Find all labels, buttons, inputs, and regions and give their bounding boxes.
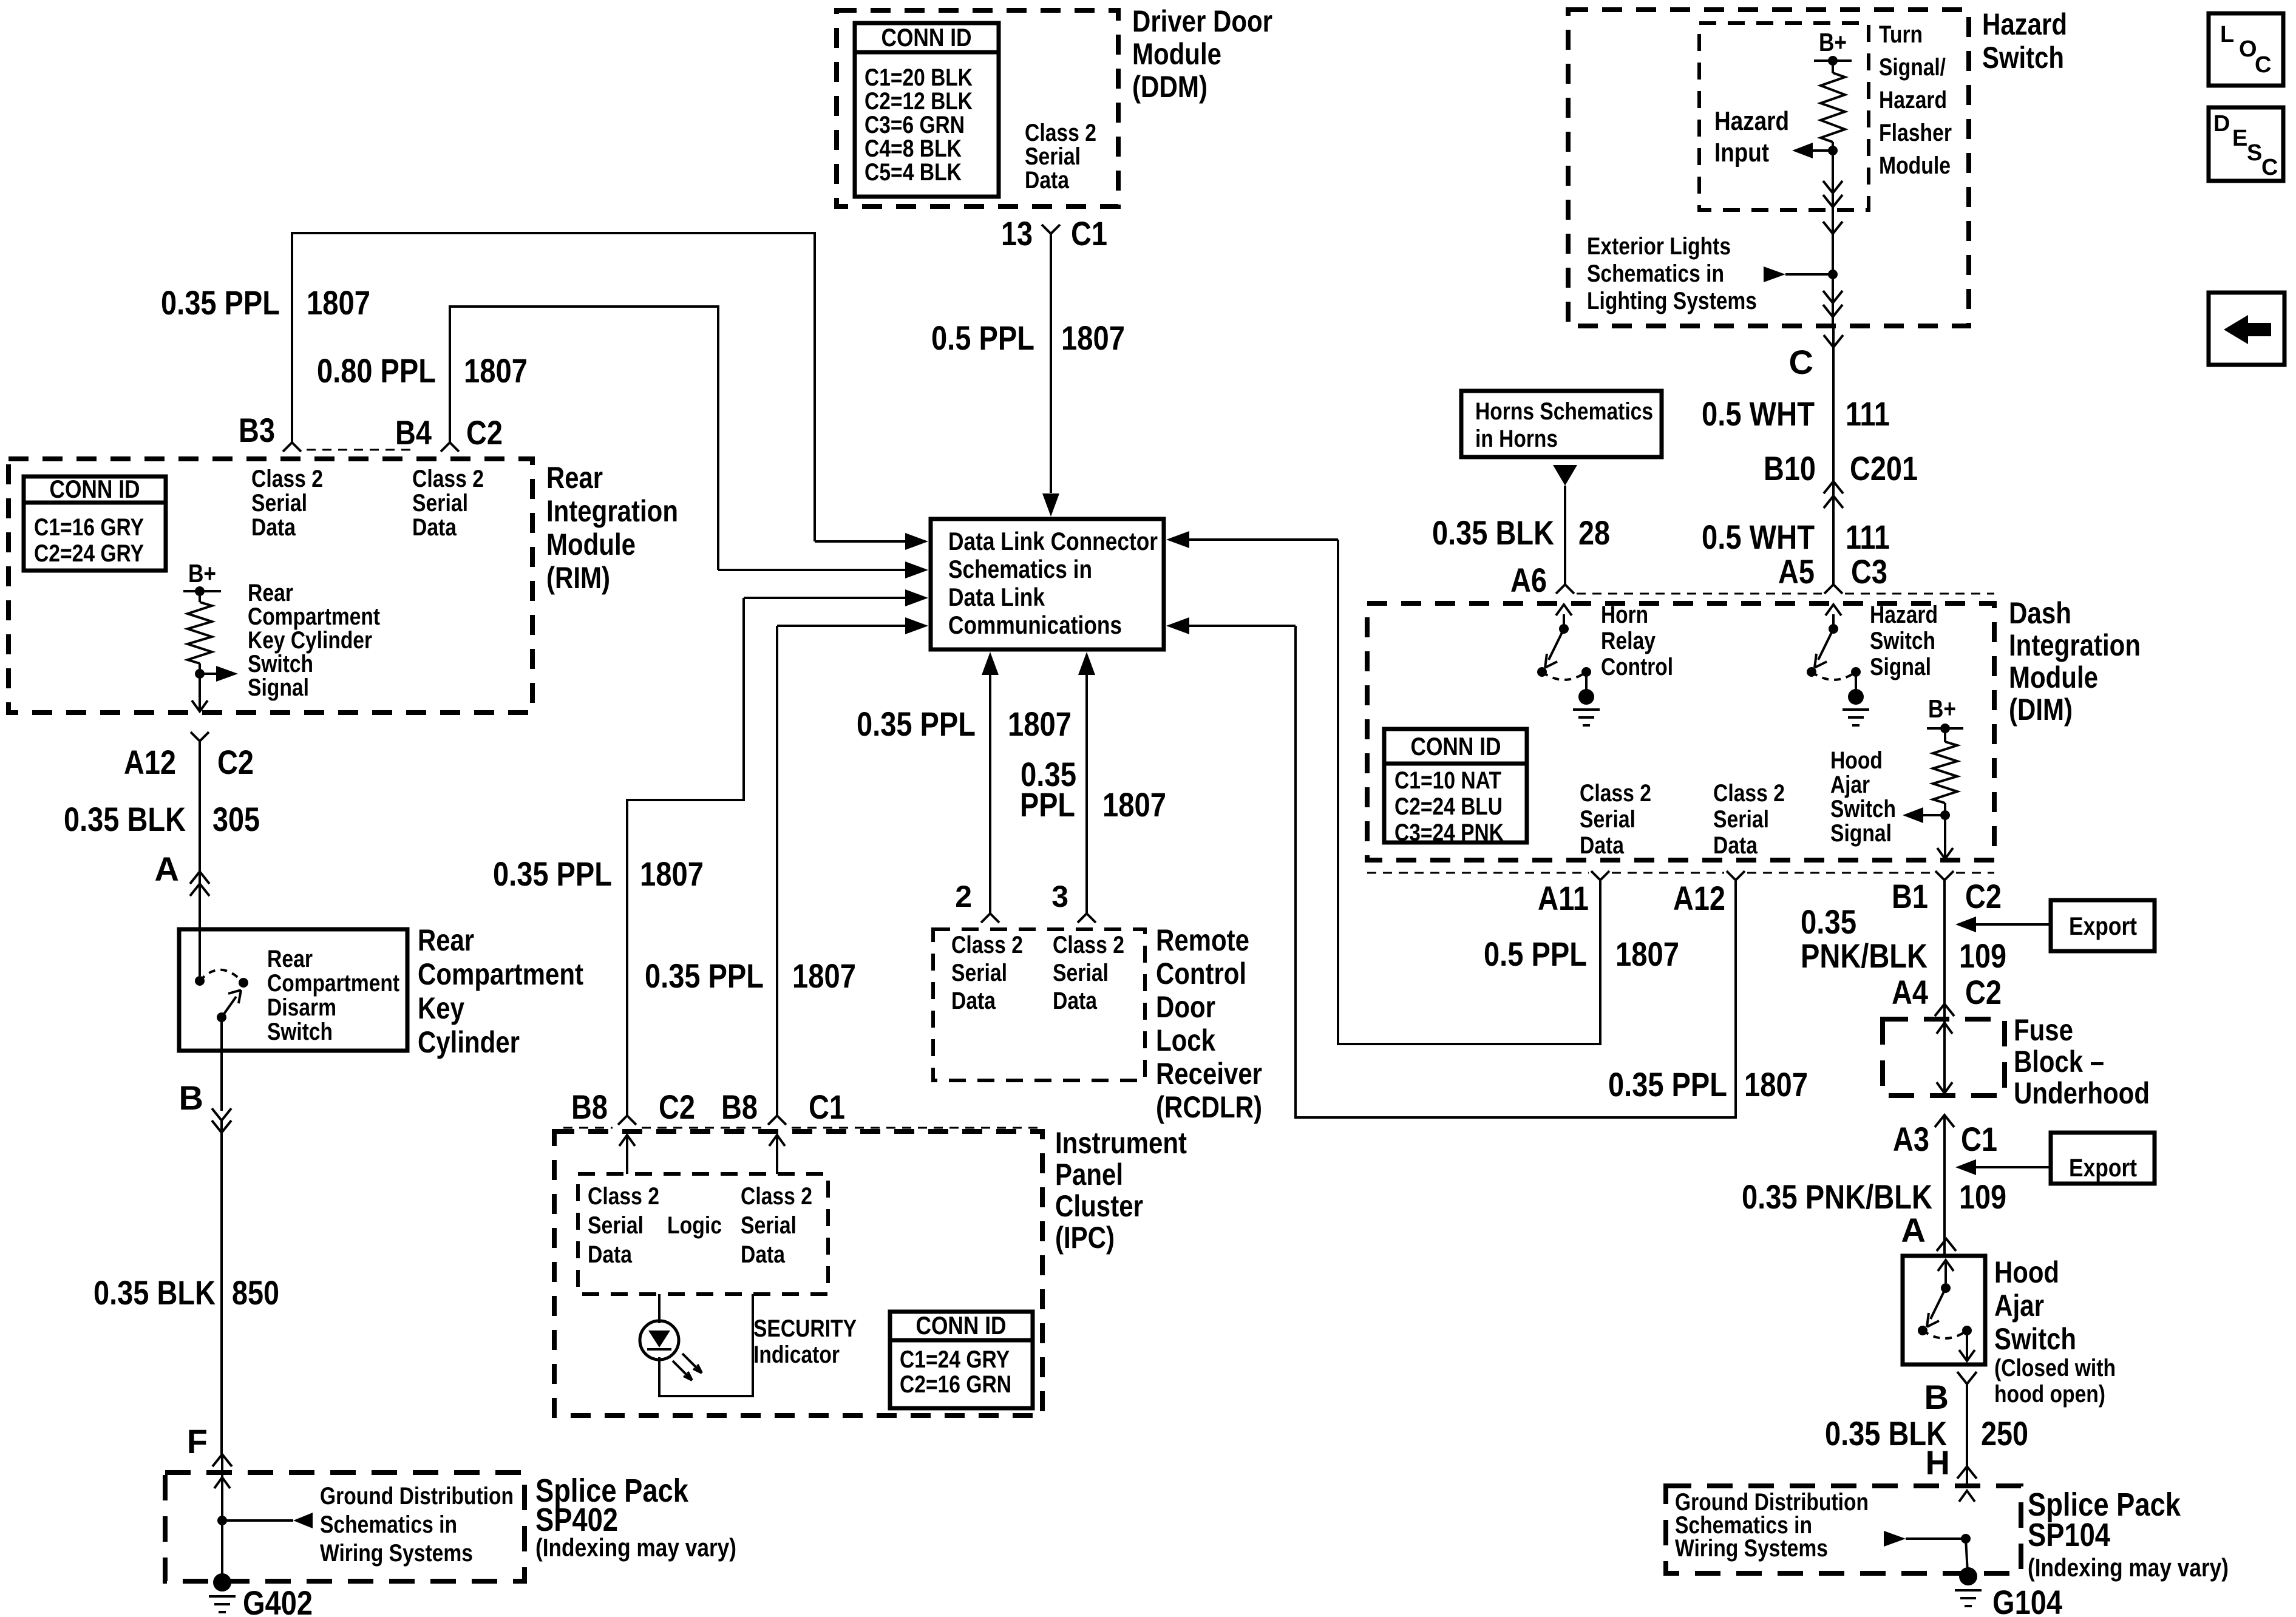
svg-text:C3=6 GRN: C3=6 GRN — [864, 112, 965, 138]
svg-text:(IPC): (IPC) — [1055, 1221, 1115, 1255]
inline connector marks flasher module exit — [1823, 181, 1843, 193]
svg-text:C1=10 NAT: C1=10 NAT — [1394, 767, 1501, 794]
svg-text:A4: A4 — [1892, 973, 1928, 1011]
svg-text:Switch: Switch — [1870, 628, 1935, 654]
svg-text:(DIM): (DIM) — [2009, 693, 2073, 727]
svg-text:111: 111 — [1846, 518, 1890, 556]
arrowhead DLC left 1 — [905, 533, 928, 550]
svg-text:Module: Module — [1879, 152, 1951, 179]
arrowhead DLC left 2 — [905, 561, 928, 578]
svg-text:Module: Module — [2009, 660, 2098, 694]
svg-text:1807: 1807 — [792, 957, 856, 995]
svg-text:Serial: Serial — [412, 490, 468, 517]
svg-text:B8: B8 — [571, 1088, 608, 1126]
pin A5 C3 of DIM — [1824, 585, 1843, 594]
svg-text:Serial: Serial — [251, 490, 307, 517]
arrowhead left hazard input — [1813, 149, 1833, 152]
svg-text:1807: 1807 — [1008, 705, 1072, 743]
svg-text:0.5 PPL: 0.5 PPL — [931, 319, 1034, 357]
svg-text:Dash: Dash — [2009, 596, 2071, 630]
svg-text:Logic: Logic — [667, 1212, 722, 1239]
svg-text:A6: A6 — [1510, 561, 1547, 599]
switch lower contact dot — [217, 1012, 226, 1022]
ground G104 — [1966, 1539, 1968, 1572]
wire 850 to splice pack (0.35 BLK) — [220, 1120, 223, 1454]
svg-text:C201: C201 — [1850, 449, 1918, 487]
svg-text:Class 2: Class 2 — [1713, 780, 1785, 807]
svg-text:B: B — [1924, 1378, 1949, 1416]
module box Splice Pack SP104, dashed — [1666, 1486, 2021, 1573]
svg-text:0.35 BLK: 0.35 BLK — [64, 800, 186, 838]
switch arc dashed (horn relay) — [1542, 672, 1586, 680]
svg-text:Class 2: Class 2 — [1580, 780, 1651, 807]
svg-text:(Indexing may vary): (Indexing may vary) — [535, 1533, 736, 1562]
svg-text:A3: A3 — [1893, 1120, 1929, 1158]
arrowhead DLC bottom left (from RCDLR 2) — [982, 652, 999, 675]
pin B1 C2 of DIM — [1935, 871, 1954, 880]
svg-text:C2=24 BLU: C2=24 BLU — [1394, 793, 1503, 820]
svg-text:D: D — [2213, 111, 2230, 137]
svg-text:Data: Data — [1580, 832, 1625, 859]
svg-text:Data: Data — [251, 514, 296, 541]
svg-text:B8: B8 — [721, 1088, 758, 1126]
pin A6 of DIM — [1556, 585, 1574, 594]
arrowhead left hood ajar signal — [1923, 814, 1945, 816]
svg-text:Module: Module — [1132, 37, 1221, 71]
svg-text:Integration: Integration — [546, 494, 678, 528]
pin B8 C2 of IPC — [618, 1116, 636, 1125]
arrowhead up IPC B8/C1 internal — [776, 1136, 778, 1174]
ground hazard switch signal — [1855, 672, 1857, 692]
svg-text:Class 2: Class 2 — [1053, 932, 1124, 958]
ground G402 — [221, 1520, 223, 1578]
switch contact dots key cylinder — [199, 929, 201, 976]
svg-text:Data Link Connector: Data Link Connector — [948, 527, 1158, 555]
wire from logic to security LED — [658, 1294, 661, 1323]
svg-text:0.35 BLK: 0.35 BLK — [93, 1273, 216, 1312]
svg-text:B4: B4 — [395, 413, 432, 452]
resistor hood ajar switch signal — [1944, 728, 1946, 742]
svg-text:Data: Data — [412, 514, 457, 541]
svg-text:C2: C2 — [659, 1088, 695, 1126]
pin B4 C2 of RIM — [441, 442, 459, 452]
svg-text:28: 28 — [1578, 514, 1610, 552]
svg-text:C: C — [1789, 343, 1813, 381]
junction dot RIM switch signal — [195, 669, 205, 679]
wire 305 from RIM A12 to key cylinder (0.35 BLK) — [199, 741, 201, 929]
svg-text:0.35: 0.35 — [1801, 903, 1856, 941]
svg-text:Export: Export — [2069, 912, 2137, 940]
svg-text:0.35 PPL: 0.35 PPL — [1608, 1065, 1727, 1103]
svg-text:Key Cylinder: Key Cylinder — [248, 627, 372, 654]
svg-text:C: C — [2261, 155, 2278, 180]
svg-text:C1=20 BLK: C1=20 BLK — [864, 64, 973, 91]
svg-text:CONN ID: CONN ID — [50, 475, 140, 503]
svg-text:Switch: Switch — [1830, 796, 1896, 822]
svg-text:A11: A11 — [1538, 879, 1589, 917]
svg-text:Integration: Integration — [2009, 628, 2141, 662]
svg-text:1807: 1807 — [1061, 319, 1125, 357]
svg-text:PPL: PPL — [1020, 785, 1075, 824]
svg-text:(RIM): (RIM) — [546, 561, 610, 595]
module box RIM (Rear Integration Module), dashed — [8, 459, 532, 713]
junction dot hazard input — [1828, 146, 1838, 155]
svg-text:Serial: Serial — [1580, 806, 1635, 833]
svg-text:C1=16 GRY: C1=16 GRY — [34, 514, 144, 541]
svg-text:Module: Module — [546, 527, 636, 561]
svg-text:Turn: Turn — [1879, 21, 1923, 48]
wire 1807 from DDM pin 13 to DLC — [1050, 234, 1052, 493]
svg-text:Horn: Horn — [1601, 602, 1648, 628]
module box Fuse Block Underhood, dashed — [1883, 1019, 2005, 1096]
svg-text:Rear: Rear — [546, 461, 603, 495]
arrowhead into DLC top — [1042, 493, 1059, 517]
svg-text:Relay: Relay — [1601, 628, 1656, 654]
svg-text:250: 250 — [1981, 1414, 2028, 1453]
svg-text:Wiring Systems: Wiring Systems — [320, 1540, 473, 1567]
wire 1807 from IPC B8/C2 to DLC (0.35 PPL) — [627, 598, 744, 1116]
junction dot hood ajar signal — [1940, 810, 1950, 820]
legend box DESC — [2209, 107, 2283, 181]
svg-text:H: H — [1926, 1443, 1950, 1482]
node box Horns Schematics in Horns — [1461, 391, 1662, 457]
svg-text:Hazard: Hazard — [1714, 106, 1789, 136]
wire RIM internal down arrow — [199, 674, 201, 710]
pin B8 C1 of IPC — [768, 1116, 786, 1125]
arrowhead DLC left 4 — [905, 617, 928, 634]
svg-text:(Indexing may vary): (Indexing may vary) — [2028, 1553, 2229, 1582]
pin A12 of DIM — [1727, 871, 1745, 880]
svg-text:Data: Data — [1713, 832, 1758, 859]
svg-text:C2: C2 — [217, 743, 254, 781]
wire 28 from horns to DIM A6 (0.35 BLK) — [1564, 486, 1566, 585]
svg-text:Lock: Lock — [1156, 1023, 1215, 1057]
svg-text:1807: 1807 — [307, 283, 370, 322]
wire 1807 from DIM A12 to DLC (0.35 PPL) — [1296, 626, 1736, 1117]
svg-text:Door: Door — [1156, 990, 1215, 1024]
svg-text:Ajar: Ajar — [1830, 771, 1870, 798]
svg-text:A: A — [155, 850, 179, 888]
resistor hazard flasher — [1832, 61, 1834, 73]
svg-text:Block –: Block – — [2014, 1045, 2104, 1079]
svg-text:C1: C1 — [1961, 1120, 1997, 1158]
inline connector mark below flasher — [1823, 222, 1843, 234]
svg-text:Compartment: Compartment — [418, 957, 583, 991]
svg-text:111: 111 — [1846, 395, 1890, 433]
svg-text:3: 3 — [1051, 880, 1068, 914]
svg-text:Receiver: Receiver — [1156, 1057, 1262, 1091]
switch arc dashed (hood ajar) — [1923, 1331, 1967, 1338]
svg-text:Data: Data — [1025, 167, 1070, 194]
svg-text:F: F — [187, 1422, 208, 1460]
svg-text:Hazard: Hazard — [1982, 7, 2067, 41]
svg-text:1807: 1807 — [640, 855, 704, 893]
svg-text:B1: B1 — [1892, 877, 1928, 915]
svg-text:Wiring Systems: Wiring Systems — [1675, 1535, 1828, 1562]
svg-text:Schematics in: Schematics in — [320, 1511, 457, 1538]
svg-text:0.5 WHT: 0.5 WHT — [1702, 395, 1815, 433]
svg-text:Hood: Hood — [1830, 747, 1883, 774]
pin A11 of DIM — [1591, 871, 1609, 880]
arrowhead from Export upper — [1955, 917, 1976, 932]
svg-text:Hazard: Hazard — [1879, 87, 1947, 114]
pin 3 of RCDLR — [1078, 914, 1096, 923]
svg-text:Rear: Rear — [248, 580, 293, 606]
connector ID table DIM — [1384, 729, 1527, 842]
svg-text:Cluster: Cluster — [1055, 1189, 1143, 1223]
wire from LED to logic right — [659, 1294, 753, 1396]
junction dot exterior lights — [1828, 269, 1838, 279]
svg-text:Compartment: Compartment — [267, 970, 399, 997]
svg-text:Underhood: Underhood — [2014, 1076, 2150, 1110]
svg-text:Ground Distribution: Ground Distribution — [320, 1483, 514, 1510]
wire through fuse block with arrows — [1943, 1019, 1946, 1096]
inline connector B (key cylinder) — [212, 1108, 231, 1120]
svg-text:C2: C2 — [1965, 877, 2002, 915]
svg-text:B10: B10 — [1764, 449, 1816, 487]
svg-text:Disarm: Disarm — [267, 994, 336, 1021]
svg-text:Remote: Remote — [1156, 923, 1249, 957]
svg-text:Class 2: Class 2 — [251, 466, 323, 492]
svg-text:Data: Data — [951, 988, 996, 1014]
svg-text:0.80 PPL: 0.80 PPL — [317, 351, 436, 390]
svg-text:Switch: Switch — [1994, 1322, 2076, 1356]
svg-text:Schematics in: Schematics in — [948, 555, 1092, 583]
module box IPC (Instrument Panel Cluster), dashed — [554, 1131, 1042, 1415]
resistor rear compartment key cylinder switch (RIM) — [199, 591, 201, 602]
connector strip DIM bottom — [1367, 872, 1589, 874]
svg-text:(Closed with: (Closed with — [1994, 1355, 2116, 1381]
wire 1807 from IPC B8/C1 to DLC (0.35 PPL) — [776, 626, 778, 1116]
junction dot SP104 — [1961, 1534, 1971, 1544]
svg-text:109: 109 — [1959, 937, 2006, 975]
svg-text:A12: A12 — [124, 743, 176, 781]
svg-text:in Horns: in Horns — [1475, 425, 1558, 452]
svg-text:SECURITY: SECURITY — [753, 1315, 857, 1342]
module box Hazard Switch, dashed — [1568, 10, 1969, 326]
svg-text:1807: 1807 — [1744, 1065, 1808, 1103]
svg-text:Class 2: Class 2 — [741, 1183, 812, 1210]
svg-text:Class 2: Class 2 — [1025, 120, 1096, 146]
arrowhead right (RIM switch signal) — [200, 673, 216, 675]
svg-text:Signal: Signal — [248, 674, 309, 701]
svg-text:(RCDLR): (RCDLR) — [1156, 1090, 1262, 1124]
node box Data Link Connector reference — [931, 519, 1164, 649]
arrowhead up inside SP402 — [214, 1477, 230, 1488]
switch arc dashed (key cylinder) — [200, 970, 243, 983]
svg-text:C2: C2 — [466, 413, 503, 452]
svg-text:Serial: Serial — [1053, 960, 1109, 986]
wire hood ajar lower contact — [1966, 1331, 1968, 1360]
svg-text:0.35 PNK/BLK: 0.35 PNK/BLK — [1742, 1178, 1932, 1216]
arrowhead DLC right lower — [1166, 617, 1189, 634]
svg-text:C3: C3 — [1851, 552, 1887, 591]
svg-text:0.35 PPL: 0.35 PPL — [857, 705, 976, 743]
svg-text:B3: B3 — [239, 411, 275, 449]
svg-text:C2=16 GRN: C2=16 GRN — [900, 1371, 1011, 1398]
svg-text:Input: Input — [1714, 138, 1769, 168]
logic box IPC, dashed — [578, 1174, 828, 1294]
svg-text:Switch: Switch — [1982, 41, 2064, 75]
svg-text:Data: Data — [741, 1241, 786, 1268]
connector strip RIM top — [307, 449, 410, 451]
arrowhead from Export lower — [1955, 1159, 1976, 1175]
svg-text:C4=8 BLK: C4=8 BLK — [864, 135, 962, 162]
svg-text:Communications: Communications — [948, 611, 1122, 639]
arrowhead left to ground distribution (SP402) — [222, 1519, 293, 1522]
svg-text:C1: C1 — [1071, 214, 1107, 253]
svg-text:Exterior Lights: Exterior Lights — [1587, 233, 1731, 260]
svg-text:Serial: Serial — [588, 1212, 644, 1239]
wire 109 from fuse block to hood ajar switch — [1943, 1115, 1946, 1256]
svg-text:E: E — [2232, 126, 2247, 151]
svg-text:Schematics in: Schematics in — [1587, 260, 1724, 287]
svg-text:Flasher: Flasher — [1879, 120, 1952, 146]
svg-text:C: C — [2255, 52, 2271, 78]
connector strip IPC top — [563, 1127, 613, 1129]
inline connector C — [1824, 335, 1843, 347]
svg-text:0.35 PPL: 0.35 PPL — [493, 855, 612, 893]
module box Splice Pack SP402, dashed — [165, 1473, 525, 1581]
arrowhead DLC bottom right (from RCDLR 3) — [1078, 652, 1095, 675]
svg-text:Rear: Rear — [418, 923, 474, 957]
svg-text:Hood: Hood — [1994, 1255, 2059, 1289]
arrowhead up IPC B8/C2 internal — [626, 1136, 628, 1174]
svg-text:Cylinder: Cylinder — [418, 1025, 520, 1059]
switch arc dashed (hazard switch) — [1812, 672, 1856, 680]
wire 111 from hazard switch to DIM (0.5 WHT) — [1832, 326, 1835, 585]
ground horn relay control — [1585, 672, 1588, 692]
svg-text:Serial: Serial — [1025, 143, 1081, 170]
svg-text:Fuse: Fuse — [2014, 1013, 2073, 1047]
svg-text:1807: 1807 — [1102, 785, 1166, 824]
LED light arrows — [673, 1361, 692, 1380]
svg-text:A: A — [1901, 1211, 1926, 1249]
arrowhead down from horns box — [1553, 465, 1577, 486]
svg-text:0.5 WHT: 0.5 WHT — [1702, 518, 1815, 556]
svg-text:Export: Export — [2069, 1153, 2137, 1182]
svg-text:0.35 PPL: 0.35 PPL — [645, 957, 764, 995]
svg-text:850: 850 — [232, 1273, 279, 1312]
arrowhead DLC right upper — [1166, 531, 1189, 548]
svg-text:Driver Door: Driver Door — [1132, 4, 1272, 38]
wire into SP402 — [221, 1454, 223, 1520]
svg-text:C1: C1 — [809, 1088, 845, 1126]
svg-text:0.35 PPL: 0.35 PPL — [161, 283, 280, 322]
pin A3 C1 of fuse block — [1935, 1115, 1954, 1127]
arrowhead DLC left 3 — [905, 589, 928, 606]
wire 109 from DIM B1 to fuse block (0.35 PNK/BLK) — [1943, 880, 1946, 1019]
pin 2 of RCDLR — [981, 914, 999, 923]
svg-text:Hazard: Hazard — [1870, 602, 1938, 628]
svg-text:305: 305 — [212, 800, 260, 838]
svg-text:Control: Control — [1156, 957, 1246, 991]
switch horn relay control — [1563, 614, 1565, 629]
node box Export upper — [2051, 900, 2155, 951]
svg-text:C3=24 PNK: C3=24 PNK — [1394, 819, 1504, 846]
arrowhead right exterior lights — [1764, 266, 1785, 282]
svg-text:C1=24 GRY: C1=24 GRY — [900, 1346, 1010, 1373]
svg-text:A12: A12 — [1673, 879, 1725, 917]
svg-text:C2: C2 — [1965, 973, 2002, 1011]
wire from disarm switch down — [220, 1017, 223, 1111]
wire 1807 from RIM B4/C2 to DLC (0.80 PPL) — [450, 307, 718, 570]
component box Hood Ajar Switch — [1903, 1256, 1985, 1364]
module box DDM (Driver Door Module), dashed — [837, 10, 1118, 206]
svg-text:S: S — [2247, 140, 2262, 166]
svg-text:Lighting Systems: Lighting Systems — [1587, 288, 1757, 314]
svg-text:SP402: SP402 — [535, 1502, 618, 1538]
connector ID table DDM — [855, 23, 999, 197]
svg-text:A5: A5 — [1778, 552, 1815, 591]
switch arm with arrow (key cylinder) — [222, 997, 236, 1017]
svg-text:B+: B+ — [1928, 694, 1956, 723]
svg-text:G104: G104 — [1992, 1583, 2062, 1617]
svg-text:Instrument: Instrument — [1055, 1126, 1187, 1160]
svg-text:2: 2 — [955, 880, 972, 914]
svg-text:L: L — [2220, 22, 2234, 47]
legend box LOC — [2209, 13, 2283, 86]
svg-text:109: 109 — [1959, 1178, 2006, 1216]
connector ID table RIM — [24, 476, 166, 571]
svg-text:C5=4 BLK: C5=4 BLK — [864, 159, 962, 186]
svg-text:0.35 BLK: 0.35 BLK — [1432, 514, 1554, 552]
svg-text:Horns Schematics: Horns Schematics — [1475, 398, 1653, 425]
svg-text:Class 2: Class 2 — [412, 466, 484, 492]
component box Rear Compartment Disarm Switch — [179, 929, 407, 1051]
legend box back arrow — [2209, 293, 2284, 365]
svg-text:Class 2: Class 2 — [588, 1183, 659, 1210]
svg-text:Key: Key — [418, 991, 464, 1025]
svg-text:Rear: Rear — [267, 946, 313, 972]
LED security indicator — [640, 1321, 679, 1360]
svg-text:Control: Control — [1601, 654, 1673, 680]
svg-text:1807: 1807 — [464, 351, 528, 390]
svg-text:Switch: Switch — [248, 651, 313, 677]
svg-text:Signal: Signal — [1830, 820, 1892, 847]
svg-text:B+: B+ — [1819, 28, 1847, 56]
svg-text:Panel: Panel — [1055, 1158, 1123, 1192]
svg-text:C2=12 BLK: C2=12 BLK — [864, 88, 973, 115]
svg-text:C2=24 GRY: C2=24 GRY — [34, 540, 144, 567]
svg-text:Compartment: Compartment — [248, 603, 380, 630]
svg-text:SP104: SP104 — [2028, 1517, 2110, 1553]
svg-text:Signal: Signal — [1870, 654, 1931, 680]
svg-text:PNK/BLK: PNK/BLK — [1801, 937, 1927, 975]
switch hood ajar internal — [1944, 1263, 1947, 1283]
svg-text:Signal/: Signal/ — [1879, 54, 1946, 81]
svg-text:B: B — [179, 1079, 203, 1117]
module box DIM (Dash Integration Module), dashed — [1367, 603, 1994, 860]
wire 1807 from DIM A11 to DLC (0.5 PPL) — [1338, 540, 1600, 1044]
wire DIM B+ down arrow — [1944, 815, 1946, 858]
svg-text:G402: G402 — [243, 1584, 313, 1617]
svg-text:CONN ID: CONN ID — [1411, 732, 1501, 761]
svg-text:CONN ID: CONN ID — [881, 23, 972, 52]
pin A12 C2 of RIM — [191, 732, 209, 741]
svg-text:Serial: Serial — [951, 960, 1007, 986]
svg-text:Indicator: Indicator — [753, 1341, 840, 1368]
svg-text:B+: B+ — [188, 559, 216, 588]
svg-text:Data: Data — [1053, 988, 1098, 1014]
wire hazard flasher output — [1832, 151, 1834, 326]
node box Export lower — [2051, 1133, 2155, 1184]
pin B3 of RIM — [283, 442, 301, 452]
svg-text:(DDM): (DDM) — [1132, 70, 1207, 104]
pin A4 C2 of fuse block — [1935, 1004, 1954, 1016]
svg-text:13: 13 — [1001, 214, 1033, 253]
inline connector marks hazard box exit — [1823, 291, 1843, 303]
